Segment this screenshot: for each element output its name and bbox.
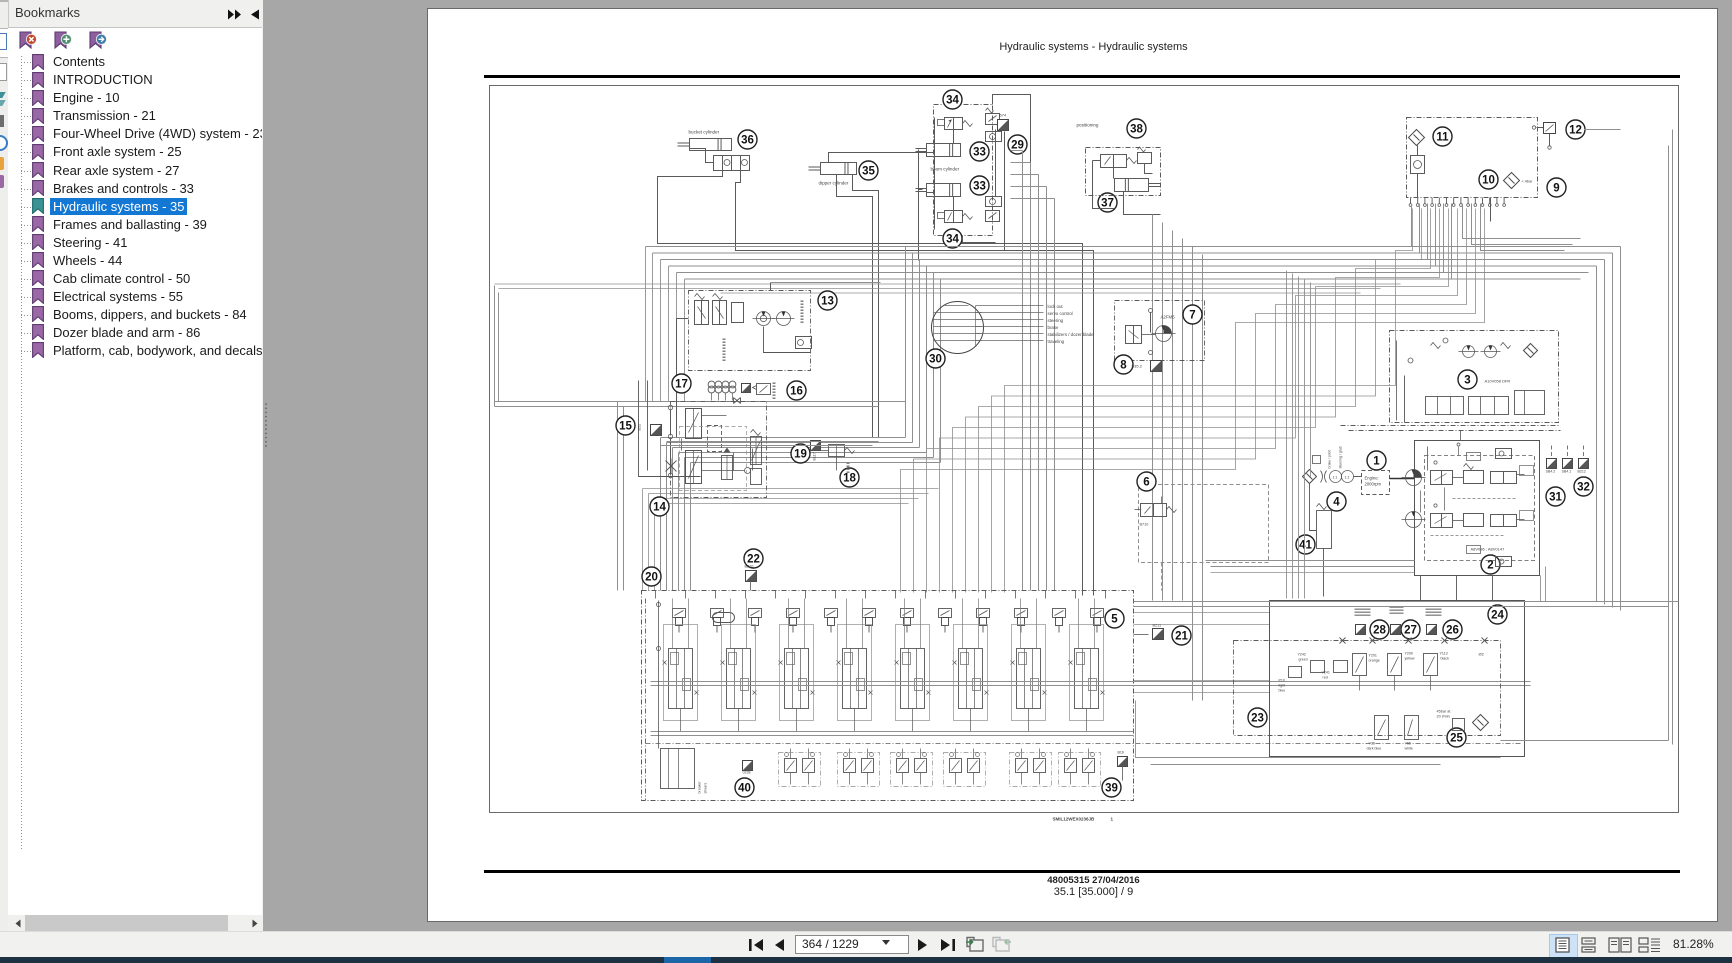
svg-text:B211: B211 (1153, 624, 1162, 628)
svg-text:A8V086 ; A8V0147: A8V086 ; A8V0147 (1471, 547, 1506, 552)
svg-text:B210: B210 (745, 565, 754, 569)
svg-text:1: 1 (1373, 456, 1380, 468)
svg-text:4: 4 (1333, 497, 1340, 509)
svg-text:41: 41 (1299, 540, 1312, 552)
svg-text:steering / grab: steering / grab (1339, 446, 1343, 468)
svg-text:40: 40 (738, 783, 751, 795)
svg-text:dark blue: dark blue (1367, 747, 1382, 751)
svg-text:2: 2 (1487, 560, 1493, 572)
svg-text:1: 1 (1111, 817, 1114, 822)
svg-text:2000rpm: 2000rpm (1365, 482, 1382, 487)
svg-text:steering: steering (1048, 318, 1064, 323)
svg-text:20 l/min: 20 l/min (1437, 715, 1450, 719)
svg-text:16: 16 (790, 386, 803, 398)
svg-text:32: 32 (1577, 482, 1590, 494)
svg-text:A2FM5: A2FM5 (1161, 315, 1176, 320)
svg-text:Y242: Y242 (1298, 653, 1306, 657)
svg-text:35: 35 (862, 166, 875, 178)
svg-text:Ø2: Ø2 (1479, 652, 1485, 657)
svg-text:Y290: Y290 (1405, 652, 1413, 656)
svg-text:B35.2: B35.2 (1132, 364, 1143, 369)
svg-text:bucket cylinder: bucket cylinder (689, 130, 720, 135)
svg-text:26: 26 (1446, 625, 1459, 637)
svg-text:B117: B117 (813, 452, 817, 460)
svg-text:P10: P10 (1279, 679, 1285, 683)
svg-text:black: black (1441, 657, 1450, 661)
svg-text:red: red (1323, 676, 1328, 680)
svg-text:29: 29 (1011, 140, 1024, 152)
svg-text:lock out: lock out (1048, 304, 1064, 309)
svg-text:33: 33 (973, 147, 986, 159)
svg-text:positioning: positioning (1077, 123, 1099, 128)
svg-text:B16: B16 (1118, 751, 1124, 755)
svg-text:6: 6 (1143, 477, 1149, 489)
svg-text:Y65: Y65 (1405, 742, 1411, 746)
svg-text:33: 33 (973, 181, 986, 193)
svg-text:12: 12 (1569, 125, 1582, 137)
svg-text:B212: B212 (1578, 470, 1586, 474)
svg-text:24: 24 (1491, 610, 1504, 622)
svg-text:brake: brake (1048, 325, 1060, 330)
svg-text:1:1: 1:1 (1333, 476, 1338, 480)
svg-text:34: 34 (946, 95, 959, 107)
svg-text:8: 8 (1120, 360, 1127, 372)
svg-text:shears: shears (704, 783, 708, 794)
svg-text:31: 31 (1549, 492, 1562, 504)
svg-text:34: 34 (946, 234, 959, 246)
svg-text:37: 37 (1101, 198, 1114, 210)
svg-text:blue: blue (1279, 689, 1286, 693)
svg-text:servo control: servo control (1048, 311, 1073, 316)
svg-text:14: 14 (653, 502, 666, 514)
svg-text:23: 23 (1251, 713, 1264, 725)
svg-text:SB4.1: SB4.1 (1562, 470, 1572, 474)
svg-text:B52: B52 (638, 424, 642, 431)
svg-text:17: 17 (675, 379, 688, 391)
svg-text:Y201: Y201 (1369, 654, 1377, 658)
svg-text:SMIL12WEX0236JB: SMIL12WEX0236JB (1053, 817, 1096, 822)
svg-text:27: 27 (1404, 625, 1417, 637)
svg-text:5: 5 (1111, 614, 1118, 626)
svg-text:Y113: Y113 (1440, 652, 1448, 656)
svg-text:11: 11 (1436, 132, 1449, 144)
svg-text:28: 28 (1373, 625, 1386, 637)
svg-text:1:1: 1:1 (1345, 476, 1350, 480)
svg-text:13: 13 (821, 296, 834, 308)
svg-text:white: white (1405, 747, 1413, 751)
svg-text:dipper cylinder: dipper cylinder (819, 181, 849, 186)
svg-text:light: light (1279, 684, 1286, 688)
svg-text:green: green (1299, 658, 1308, 662)
svg-text:20: 20 (645, 572, 658, 584)
svg-text:574: 574 (1000, 113, 1007, 118)
svg-text:traveling: traveling (1048, 339, 1065, 344)
svg-text:Y241: Y241 (1322, 671, 1330, 675)
svg-text:7: 7 (1189, 310, 1195, 322)
svg-text:B710: B710 (1140, 523, 1149, 527)
svg-text:10: 10 (1482, 175, 1495, 187)
svg-text:45bar at: 45bar at (1437, 710, 1452, 714)
svg-text:brake / pilot: brake / pilot (1328, 450, 1332, 468)
svg-text:15: 15 (619, 421, 632, 433)
svg-text:breaker: breaker (698, 781, 702, 794)
svg-text:3: 3 (1464, 375, 1470, 387)
svg-text:36: 36 (741, 135, 754, 147)
svg-text:25: 25 (1450, 733, 1463, 745)
svg-text:38: 38 (1130, 124, 1143, 136)
svg-text:30: 30 (929, 354, 942, 366)
svg-text:A10V058 DFR: A10V058 DFR (1485, 379, 1511, 384)
svg-text:9: 9 (1553, 183, 1559, 195)
svg-text:21: 21 (1175, 631, 1188, 643)
svg-text:39: 39 (1105, 783, 1118, 795)
svg-text:stabilizers / dozer blade: stabilizers / dozer blade (1048, 332, 1095, 337)
svg-text:0238: 0238 (743, 771, 751, 775)
svg-text:18: 18 (843, 473, 856, 485)
svg-text:Y35: Y35 (1369, 742, 1375, 746)
svg-text:<.4bar: <.4bar (1522, 180, 1534, 184)
svg-text:orange: orange (1369, 659, 1380, 663)
svg-text:yellow: yellow (1405, 657, 1415, 661)
svg-text:SB4.2: SB4.2 (1546, 470, 1556, 474)
svg-text:19: 19 (794, 449, 807, 461)
svg-text:Engine:: Engine: (1365, 476, 1379, 481)
